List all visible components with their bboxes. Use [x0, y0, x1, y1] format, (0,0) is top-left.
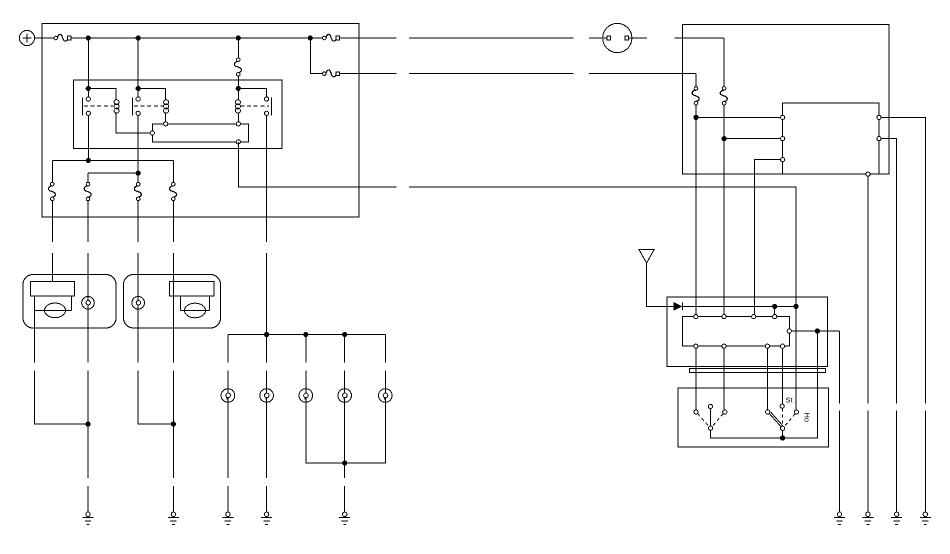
wire F6 to right (segment 2): [409, 73, 574, 75]
ground G3: [222, 512, 233, 524]
pin dimmer bottom: [236, 140, 240, 144]
wire f4 to right headlight: [172, 253, 174, 281]
bulb B1 front parking: [221, 389, 235, 403]
wire F6 to right box: [589, 73, 696, 75]
wire ground drop G3: [227, 486, 229, 512]
dimmer switch contact 3: [794, 410, 798, 414]
wire dimmer output right segment 2: [409, 187, 796, 306]
wire unit bottom to ground drop: [867, 176, 869, 403]
wire drop to bulb B4: [344, 335, 346, 363]
wire f1 to box edge: [51, 201, 53, 242]
fuse f3: [134, 182, 141, 200]
fuse F8: [720, 87, 727, 105]
wire F8 to unit pin 2: [724, 138, 780, 140]
right position light bulb: [132, 297, 145, 310]
wire ground drop G1: [87, 486, 89, 512]
relay R2 coil feed wire: [138, 89, 166, 98]
wire R2 contact down to fuse f3: [137, 115, 139, 182]
node antenna line pin4: [773, 304, 777, 308]
wire B5 upper: [384, 370, 386, 388]
node bus-R3: [236, 36, 240, 40]
wire unit right1 to ground drop: [881, 117, 925, 403]
node parking bus feed: [265, 332, 269, 336]
wire bus to relay R2: [137, 38, 139, 89]
lighting switch contact C: [723, 410, 727, 414]
pin radio bottom 4: [780, 344, 784, 348]
wire right position light down: [137, 309, 139, 363]
ground G6: [834, 512, 845, 524]
wire antenna line: [682, 305, 796, 307]
fuse f1: [48, 182, 55, 200]
ground G1: [83, 512, 94, 524]
pin unit bottom: [866, 172, 870, 176]
node radio output branch: [815, 329, 819, 333]
dash fuse box: [683, 24, 889, 174]
pin radio top 2: [722, 315, 726, 319]
node parking bus b4: [343, 332, 347, 336]
wire B2 to ground: [266, 402, 268, 478]
relay R1 contact: [83, 89, 114, 116]
integration unit box: [783, 103, 879, 174]
fuse F5: [323, 34, 340, 41]
wire B1 to ground: [227, 402, 229, 478]
wire bus to relay R1: [87, 38, 89, 89]
relay R2 contact: [132, 89, 163, 116]
lighting switch arm: [710, 409, 712, 427]
ground G7: [862, 512, 873, 524]
wire ground drop G8: [896, 411, 898, 513]
wire left headlight output lower: [34, 370, 88, 424]
wire power line down to switch: [795, 306, 797, 410]
wire radio b3 to switch: [766, 348, 768, 410]
relay R3 coil: [235, 97, 240, 115]
lighting switch contact B: [708, 404, 712, 408]
node bus-right-branch: [308, 36, 312, 40]
relay R3 node: [236, 86, 240, 90]
wire B3 upper: [305, 370, 307, 388]
under-hood fuse/relay box: [42, 24, 359, 218]
wire drop to bulb B3: [305, 335, 307, 363]
relay R2 node: [136, 86, 140, 90]
wire f3 to right position light: [137, 253, 139, 297]
wire radio b4 to switch: [782, 348, 784, 404]
wire A left drop to fuse f1: [51, 160, 53, 182]
inline connector (2P): [603, 23, 632, 52]
wire B4 upper: [344, 370, 346, 388]
pin dimmer top-left: [164, 122, 168, 126]
wire into fuse F9: [695, 74, 697, 87]
wire left headlight output: [33, 311, 35, 363]
ground G4: [261, 512, 272, 524]
wire drop to bulb B5: [384, 335, 386, 363]
relay R1 coil output wire: [116, 115, 150, 133]
wire radio b2 to switch: [723, 348, 725, 410]
ground G8: [891, 512, 902, 524]
pin unit left 2: [781, 137, 785, 141]
wire F5 to right (segment 2): [409, 37, 574, 39]
wire F9 down: [695, 105, 697, 317]
node switch common join: [781, 436, 785, 440]
pin dimmer top-right: [236, 122, 240, 126]
wire left position lower to ground: [87, 370, 89, 478]
wire dimmer common: [782, 430, 784, 438]
ground G2: [168, 512, 179, 524]
wire B3 down: [306, 402, 345, 463]
node F9 branch: [694, 115, 698, 119]
fuse F1 (main): [54, 34, 71, 41]
node F8 branch: [722, 137, 726, 141]
combination switch box: [678, 388, 828, 447]
wire f2 to left position light: [87, 253, 89, 297]
pin radio bottom 3: [765, 344, 769, 348]
fuse f4: [170, 182, 177, 200]
connector strip bar: [690, 369, 826, 373]
wire right position lower: [138, 370, 173, 424]
bulb B2 front parking: [260, 389, 274, 403]
node antenna line power: [794, 304, 798, 308]
battery positive terminal: [19, 30, 34, 45]
wire branch down to switch common: [783, 331, 818, 438]
pin radio bottom 1: [694, 344, 698, 348]
wire ground drop G4: [266, 486, 268, 512]
svg-text:St: St: [786, 396, 794, 405]
wire A right drop to fuse f4: [172, 160, 174, 182]
lighting switch pivot: [709, 426, 713, 430]
pin radio top 3: [752, 315, 756, 319]
relay R3 coil feed wire: [237, 89, 239, 98]
radio box: [667, 297, 827, 367]
node bus-R2: [136, 36, 140, 40]
wire A low-beam distribution: [52, 159, 173, 161]
wire F5 to connector: [589, 37, 603, 39]
wire f1 to left headlight: [51, 253, 53, 281]
wire radio right output: [791, 330, 839, 332]
wire bus to fuse F5: [310, 37, 322, 39]
bulb B3 tail: [299, 389, 313, 403]
wire pin4 drop: [774, 306, 776, 316]
wire ground drop G9: [924, 411, 926, 513]
pin unit right 2: [877, 137, 881, 141]
fuse F6: [323, 70, 340, 77]
node parking bus b3: [304, 332, 308, 336]
relay R2 coil: [164, 97, 169, 115]
wire R3 contact down: [266, 115, 268, 242]
node right lights join: [171, 422, 175, 426]
dimmer switch contact 2: [780, 404, 784, 408]
antenna: [639, 249, 667, 306]
wire f2 to box edge: [87, 201, 89, 242]
wire f4 to box edge: [172, 201, 174, 242]
right headlight sealed beam: [169, 281, 214, 317]
headlight relay unit box: [74, 80, 283, 148]
bulb B5 license: [379, 389, 393, 403]
ground G5: [339, 512, 350, 524]
fuse F9: [692, 87, 699, 105]
pin unit right 1: [877, 115, 881, 119]
wire ground drop G6: [839, 411, 841, 513]
wire F6 to right (segment 1): [340, 73, 397, 75]
antenna input diode: [667, 303, 682, 311]
relay R1 node: [86, 86, 90, 90]
svg-text:Ho: Ho: [803, 413, 812, 423]
wire parking lamp bus: [228, 334, 385, 336]
wire unit right2 to ground drop: [881, 139, 897, 404]
wire lighting switch common: [711, 430, 818, 438]
pin radio bottom 2: [722, 344, 726, 348]
wire B1 upper: [227, 370, 229, 388]
fuse F7: [234, 58, 241, 76]
wire radio b1 to switch: [695, 348, 697, 410]
relay R2 coil output wire: [165, 115, 167, 121]
lighting switch dashed throws: [698, 414, 723, 427]
wire drop to bulb B1: [227, 335, 229, 363]
relay R3 contact feed wire: [238, 89, 266, 97]
wire F9 to unit pin 1: [696, 116, 781, 118]
wire connector to right box: [632, 37, 647, 39]
dimmer switch arm engaged: [769, 412, 783, 427]
relay R3 contact: [241, 97, 272, 116]
node bus-R1: [86, 36, 90, 40]
node wire B / R2: [136, 171, 140, 175]
node left lights join: [86, 422, 90, 426]
bulb B4 tail: [338, 389, 352, 403]
relay R1 coil: [114, 97, 119, 115]
dimmer control unit box: [152, 124, 248, 142]
left position light bulb: [82, 297, 95, 310]
wire unit left3 to radio: [754, 160, 780, 317]
wire drop to bulb B2: [266, 335, 268, 363]
dimmer switch dashed throws: [782, 408, 795, 426]
dimmer switch pivot: [781, 426, 785, 430]
wire right headlight lower to ground: [172, 370, 174, 478]
ground G9: [920, 512, 931, 524]
node wire A / R1: [86, 158, 90, 162]
wire R1 contact down to low-beam bus: [87, 115, 89, 160]
wire ground drop G7: [867, 411, 869, 513]
left headlight housing: [23, 275, 116, 329]
wire branch down to F6: [310, 38, 322, 74]
wire B4 down: [344, 402, 346, 478]
wire radio output to ground drop: [839, 331, 841, 404]
wire F8 down: [723, 105, 725, 317]
wire bus into fuse F8: [723, 38, 725, 87]
pin unit left 3: [781, 158, 785, 162]
wire ground drop G5: [344, 486, 346, 512]
wire F7 to relay R3: [237, 76, 239, 88]
wire main bus: [71, 37, 310, 39]
fuse f2: [84, 182, 91, 200]
pin radio top 1: [694, 315, 698, 319]
wire ground drop G2: [172, 486, 174, 512]
wire battery to fuse: [35, 37, 54, 39]
wire dimmer output down and right: [238, 142, 396, 187]
pin radio right: [787, 329, 791, 333]
pin dimmer left: [150, 131, 154, 135]
wire right headlight through/output: [172, 281, 174, 362]
lighting switch contact A: [694, 410, 698, 414]
wire R3 to parking bus: [266, 253, 268, 335]
dimmer switch contact 1: [766, 410, 770, 414]
right headlight housing: [124, 275, 221, 329]
wire bus to fuse F7: [237, 38, 239, 58]
wire F5 to right (segment 1): [340, 37, 397, 39]
wire B5 down: [345, 402, 386, 463]
wire f3 to box edge: [137, 201, 139, 242]
wire B2 upper: [266, 370, 268, 388]
pin radio top 4: [773, 315, 777, 319]
node tail lamps join: [343, 461, 347, 465]
radio connector box: [683, 317, 790, 347]
pin unit left 1: [781, 115, 785, 119]
left headlight sealed beam: [30, 281, 74, 317]
wire left position light down: [87, 309, 89, 363]
wire B high-beam distribution: [88, 172, 138, 174]
relay R3 coil output wire: [237, 115, 239, 121]
relay R1 coil feed wire: [88, 89, 116, 98]
